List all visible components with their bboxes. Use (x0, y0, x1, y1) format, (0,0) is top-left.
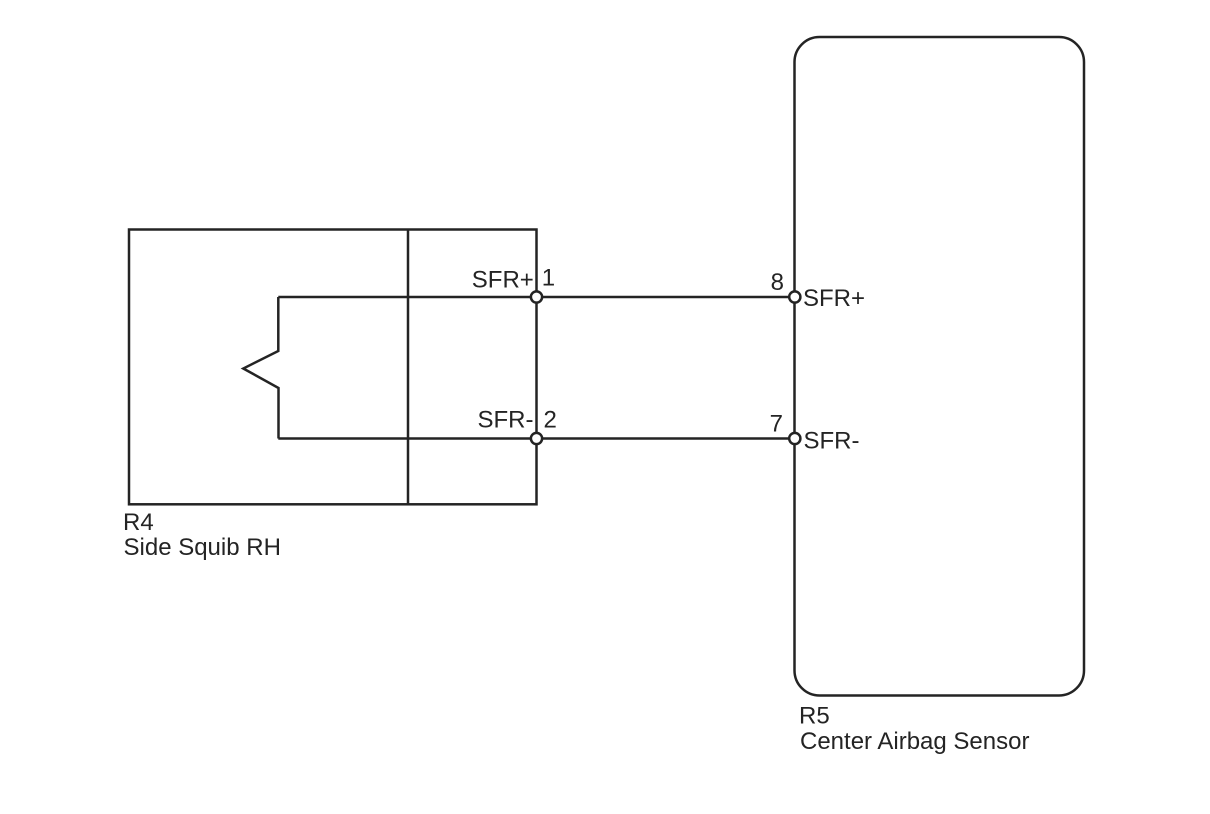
svg-text:1: 1 (542, 264, 555, 291)
svg-text:SFR-: SFR- (804, 427, 860, 454)
svg-text:2: 2 (544, 407, 557, 434)
svg-text:7: 7 (770, 411, 783, 438)
svg-text:SFR-: SFR- (478, 407, 534, 434)
svg-text:Center Airbag Sensor: Center Airbag Sensor (800, 728, 1029, 755)
svg-text:R5: R5 (799, 703, 830, 730)
svg-text:R4: R4 (123, 509, 154, 536)
svg-text:SFR+: SFR+ (803, 285, 865, 312)
svg-text:SFR+: SFR+ (472, 267, 534, 294)
svg-text:Side Squib RH: Side Squib RH (124, 534, 281, 561)
svg-text:8: 8 (771, 269, 784, 296)
